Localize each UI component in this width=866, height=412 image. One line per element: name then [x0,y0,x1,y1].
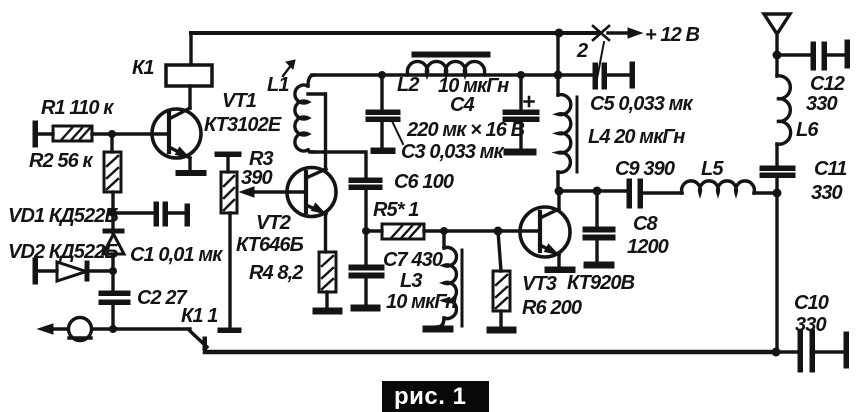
terminal contact fixed [218,328,241,333]
svg-text:L6: L6 [796,119,819,141]
inductor L5 [682,181,755,193]
svg-text:С10: С10 [794,292,829,314]
svg-text:С9 390: С9 390 [615,158,675,180]
terminal C5 right [630,62,635,88]
diode VD2 [38,261,113,281]
transistor VT1 [152,108,201,171]
capacitor C2 [99,291,130,305]
node L4 bottom [555,187,564,196]
svg-text:С8: С8 [633,213,659,235]
svg-text:КТ646Б: КТ646Б [236,234,304,256]
capacitor C10 [798,330,815,372]
wire input to R1 [38,132,53,135]
svg-text:330: 330 [806,93,837,115]
svg-text:VT2: VT2 [256,212,291,234]
svg-text:L3: L3 [400,270,422,292]
svg-text:1200: 1200 [627,236,669,258]
svg-text:L5: L5 [701,158,724,180]
node L5 output junction [773,189,782,198]
capacitor C9 [627,179,643,208]
svg-text:L1: L1 [267,74,289,96]
connector X1 pin 2 [593,26,609,84]
svg-text:КТ3102Е: КТ3102Е [204,114,282,136]
wire R3 wiper to VT2 base [252,190,306,193]
ground R6 [487,327,516,333]
wire L5 to antenna column [754,191,777,194]
node C8 branch [593,187,602,196]
node base VT1 junction [108,130,116,138]
svg-text:220 мк × 16 В: 220 мк × 16 В [406,119,525,141]
wire R1 to VT1 base [92,132,169,135]
inductor L6 [777,55,791,166]
svg-text:С3 0,033 мк: С3 0,033 мк [401,141,505,163]
node L3 branch [440,227,448,235]
svg-text:10 мкГн: 10 мкГн [386,291,457,313]
svg-text:С4: С4 [450,94,475,116]
ground VT1 emitter [176,171,206,176]
capacitor C3 [366,71,403,154]
capacitor C6 [349,178,382,190]
wire C6 to R5 node [364,190,367,231]
resistor R4 [319,252,336,308]
terminal input left [33,121,38,147]
resistor R6 [493,231,510,327]
resistor R1 [53,126,92,141]
svg-text:2: 2 [576,40,588,62]
label L1 arrow [283,64,292,76]
wire C12 to terminal [827,53,846,56]
capacitor C4 [503,71,539,155]
wire C10 to terminal [815,350,845,353]
jack XS1 microphone [38,318,190,341]
svg-text:КТ920В: КТ920В [567,272,635,294]
wire supply branch [556,33,559,95]
wire C11 to bottom rail [775,178,778,352]
svg-text:VT3: VT3 [522,273,557,295]
svg-text:С6 100: С6 100 [394,171,454,193]
wire junction to R2 [110,134,113,152]
svg-text:L4 20 мкГн: L4 20 мкГн [588,126,685,148]
svg-text:VD2 КД522Б: VD2 КД522Б [8,241,118,263]
wire C2 to jack line [111,305,114,329]
terminal C10 right [844,332,849,368]
node jack junction [109,325,117,333]
wire top supply rail [191,31,600,35]
svg-text:К1 1: К1 1 [181,305,218,327]
node VD2 junction [109,267,117,275]
transistor VT3 [520,191,570,267]
capacitor C5 [593,63,607,89]
svg-text:L2: L2 [397,74,419,96]
wire R3 bottom to contact [228,213,231,328]
wire C5 to terminal [607,73,631,76]
wire antenna to C12 [777,53,812,56]
wire relay feed [189,33,192,65]
svg-text:С12: С12 [810,73,845,95]
contact K1.1 [190,331,207,350]
wire R2 to C1 node [111,192,114,213]
svg-text:R6 200: R6 200 [522,297,582,319]
transistor VT2 [287,168,336,253]
wire VT2 collector [324,94,327,170]
resistor R3 trimmer [215,152,241,213]
capacitor C1 [154,202,168,226]
terminal C1 right [185,204,190,226]
svg-text:С11: С11 [814,158,847,180]
inductor L1 [295,75,325,152]
svg-text:рис. 1: рис. 1 [394,383,466,410]
resistor R5 [366,224,540,239]
inductor L3 [437,231,462,327]
ground R4 [313,308,342,314]
inductor L4 [558,95,577,191]
node bottom right junction [772,348,781,357]
node R6 branch [494,227,503,236]
capacitor C7 [349,231,384,311]
svg-text:VD1 КД522Б: VD1 КД522Б [8,205,118,227]
ground VT3 emitter [545,267,575,273]
svg-text:+ 12 В: + 12 В [645,24,700,46]
svg-text:VT1: VT1 [222,90,257,112]
svg-text:С5 0,033 мк: С5 0,033 мк [590,93,694,115]
ground L3 [423,326,453,332]
caption fig.1 [382,381,489,412]
wire C1 to terminal [167,211,186,214]
wire C9 to L5 [644,191,682,194]
relay K1 [166,65,212,86]
wire tank top [312,73,592,76]
svg-text:R2 56 к: R2 56 к [29,150,94,172]
node antenna junction [773,51,782,60]
wire relay to VT1 collector [188,86,191,108]
wire bottom common rail [205,350,776,355]
antenna WA1 [764,14,790,55]
capacitor C12 [811,42,827,70]
terminal VD2 left [33,258,38,284]
svg-text:R1 110 к: R1 110 к [41,97,114,119]
wire +12V arrow [608,31,628,34]
node C1 tap [109,209,117,217]
svg-text:С1 0,01 мк: С1 0,01 мк [130,244,223,266]
svg-text:330: 330 [795,314,826,336]
wire node to C1 [113,211,155,214]
diode VD1 [103,213,124,291]
node supply branch top [555,29,564,38]
svg-text:390: 390 [241,167,272,189]
wire collector bus VT3 [560,189,628,192]
node tank wire junction [554,71,563,80]
capacitor C11 [760,166,795,178]
svg-text:330: 330 [811,182,842,204]
svg-text:R5* 1: R5* 1 [373,199,419,221]
inductor L2 [407,52,490,75]
svg-text:К1: К1 [132,57,154,79]
svg-text:R4 8,2: R4 8,2 [249,262,303,284]
terminal C12 right [845,40,850,68]
resistor R2 [104,152,121,192]
wire L1 bottom to C6 [310,152,366,178]
node R5 left [362,227,370,235]
capacitor C8 [583,191,615,268]
svg-text:С7 430: С7 430 [383,249,443,271]
wire rail to C10 [776,350,799,353]
